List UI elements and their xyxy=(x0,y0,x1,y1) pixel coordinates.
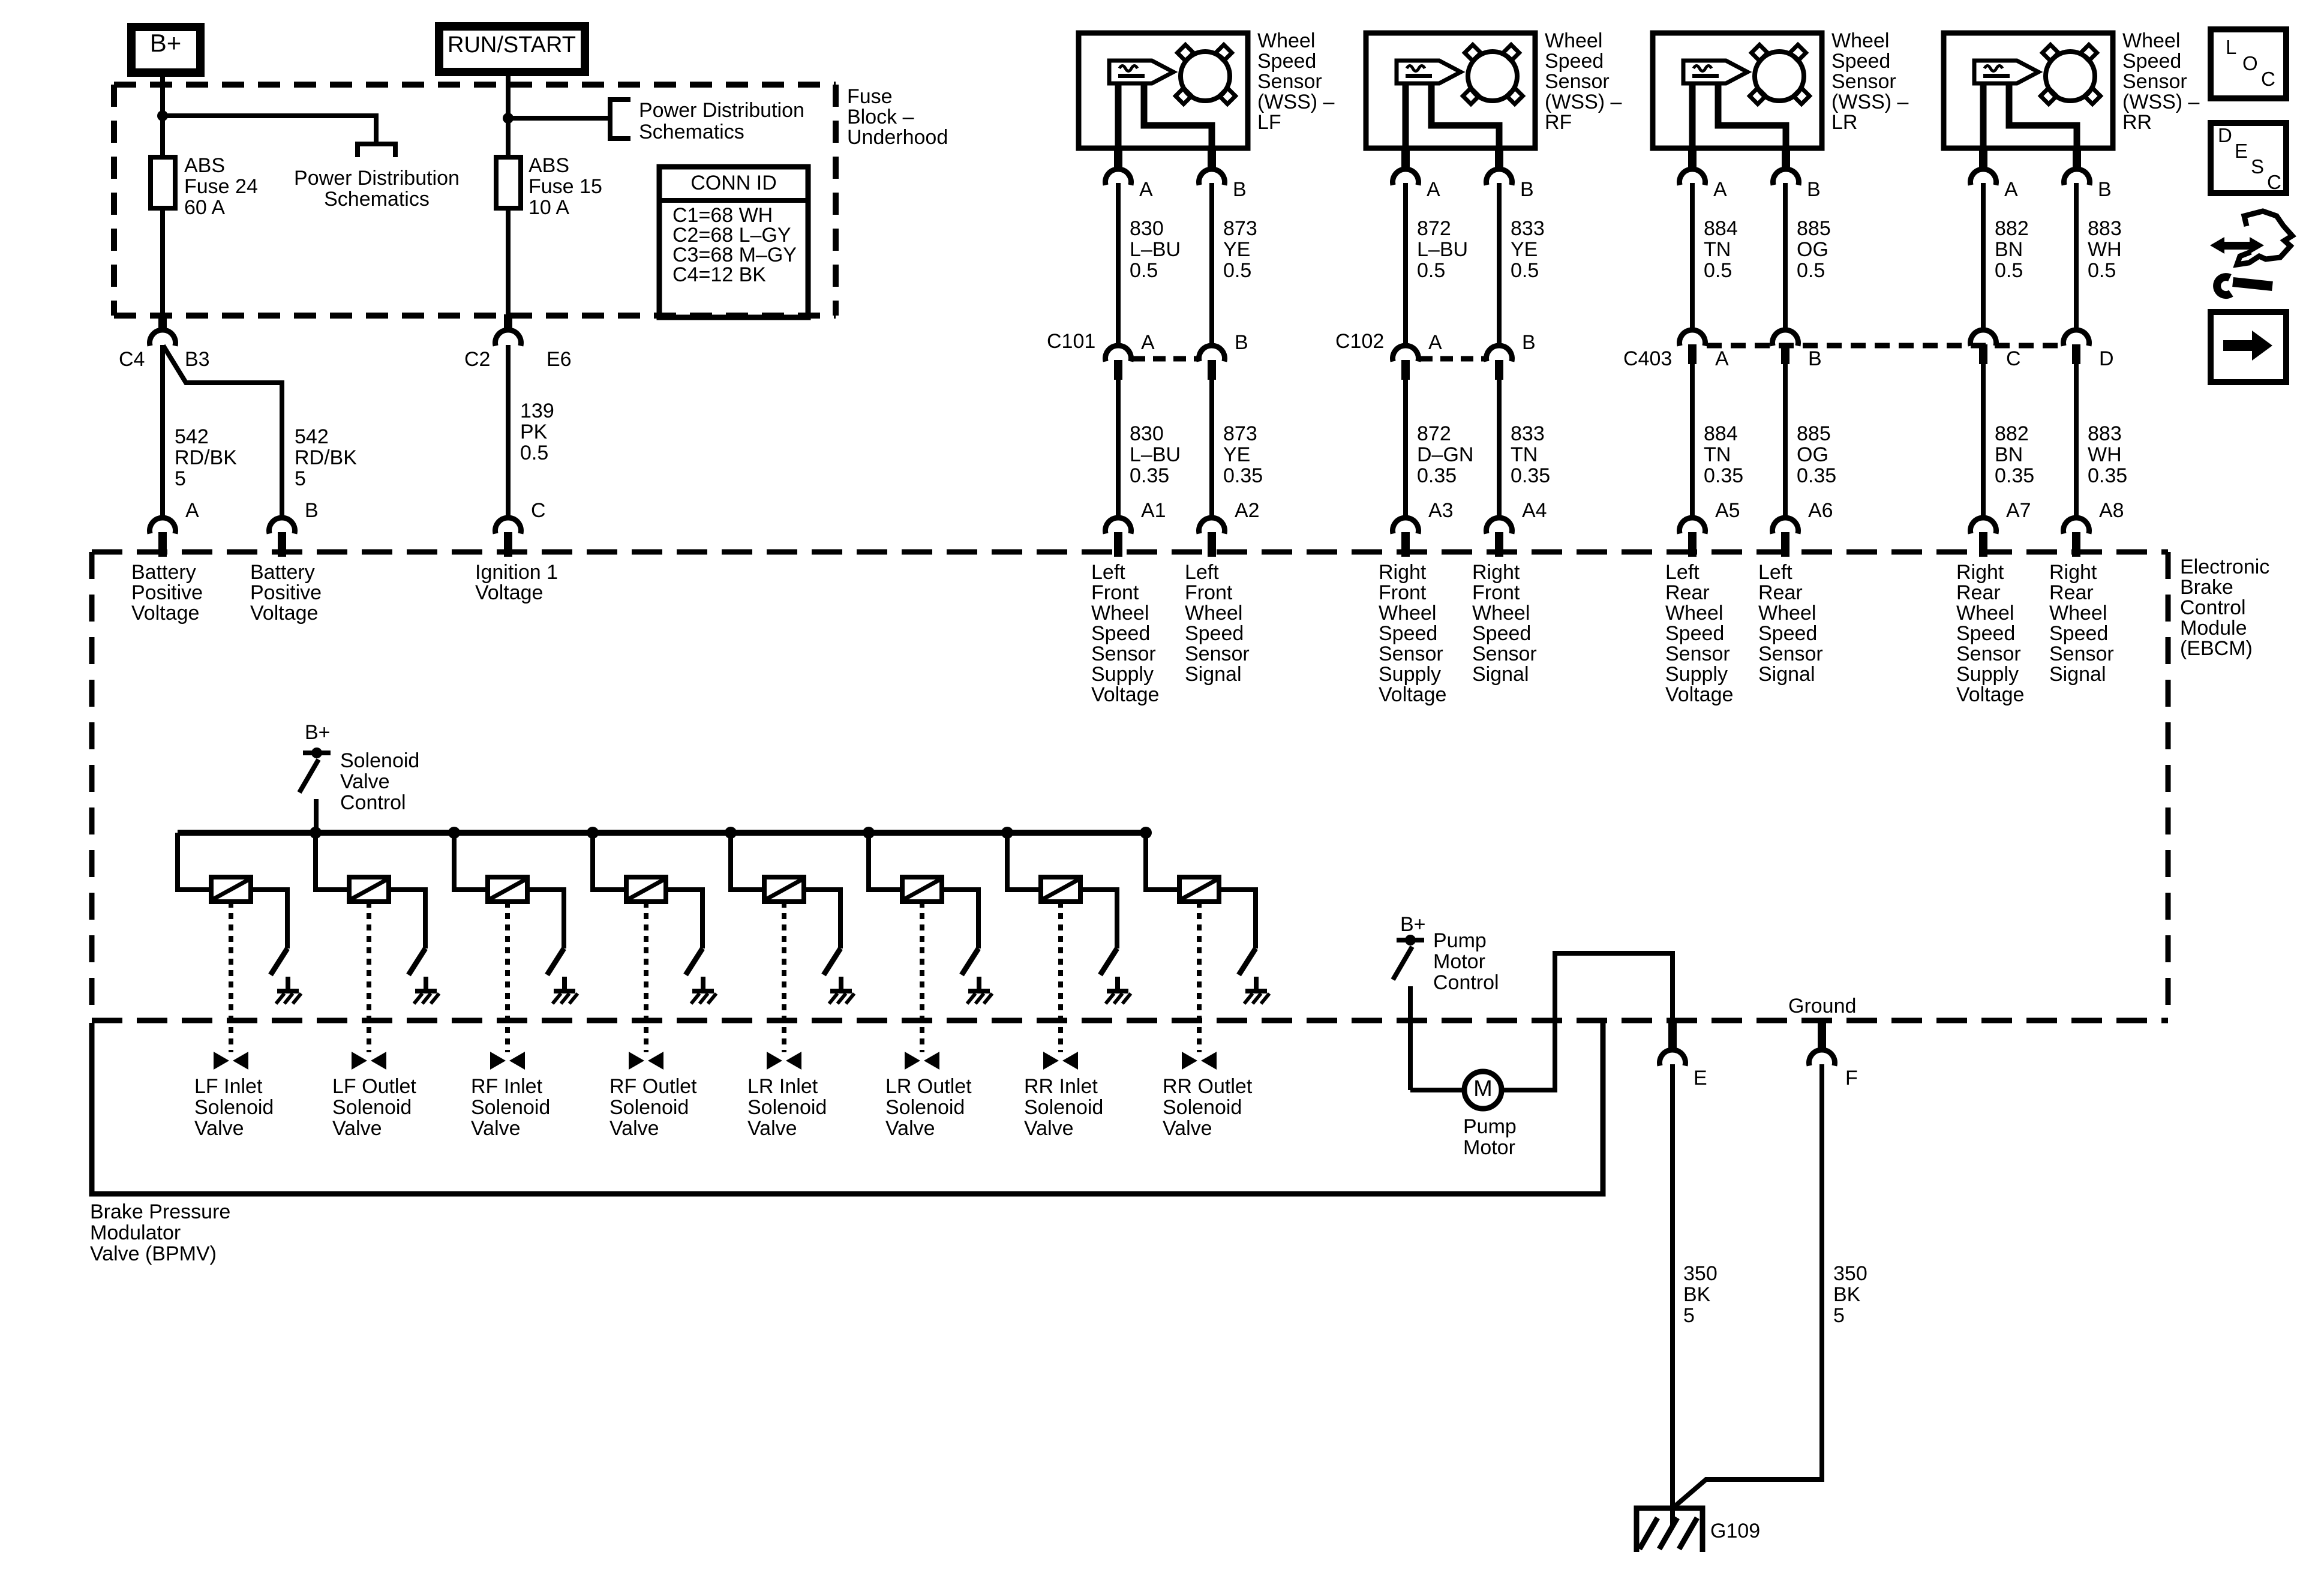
svg-text:C2: C2 xyxy=(464,348,490,371)
WSS LF sensor tag icon xyxy=(1109,61,1173,83)
junction dot B+ branch xyxy=(157,110,168,121)
solenoid driver coil LF Inlet xyxy=(211,877,251,902)
WSS LR internal wire B xyxy=(1718,83,1786,149)
svg-text:A5: A5 xyxy=(1715,499,1740,522)
svg-text:Sensor: Sensor xyxy=(2049,643,2114,665)
pointer bracket to Power Distribution Schematics (right) xyxy=(610,100,630,139)
brake pressure modulator valve (BPMV) box outline xyxy=(92,1023,1603,1194)
connector C403 pin B xyxy=(1773,330,1798,346)
svg-text:Brake Pressure: Brake Pressure xyxy=(90,1200,230,1223)
wire bus feed to RR Outlet driver coil xyxy=(1146,833,1179,890)
svg-text:Battery: Battery xyxy=(250,561,315,584)
wire bus feed to LF Outlet driver coil xyxy=(316,833,349,890)
junction dot bus feed LR Inlet xyxy=(725,827,737,839)
svg-text:Sensor: Sensor xyxy=(1831,70,1896,93)
svg-text:833: 833 xyxy=(1511,217,1545,240)
svg-text:LR Outlet: LR Outlet xyxy=(885,1075,972,1098)
svg-text:Signal: Signal xyxy=(2049,663,2106,686)
dashed actuation link RR Inlet xyxy=(1058,902,1063,1052)
svg-text:BN: BN xyxy=(1995,238,2023,261)
wire 885 OG 0.35 to EBCM pin A6 xyxy=(1783,363,1788,520)
svg-text:Sensor: Sensor xyxy=(1379,643,1443,665)
electronic brake control module (EBCM) dashed box xyxy=(92,550,2168,555)
svg-text:A4: A4 xyxy=(1522,499,1547,522)
svg-text:Wheel: Wheel xyxy=(1257,29,1315,52)
svg-text:D: D xyxy=(2099,347,2114,370)
wire 883 WH 0.35 to EBCM pin A8 xyxy=(2074,363,2079,520)
svg-text:C102: C102 xyxy=(1335,330,1384,353)
svg-text:0.5: 0.5 xyxy=(2088,259,2116,282)
svg-text:RF: RF xyxy=(1545,111,1572,134)
svg-text:LF Inlet: LF Inlet xyxy=(194,1075,263,1098)
svg-text:TN: TN xyxy=(1511,443,1538,466)
svg-text:883: 883 xyxy=(2088,422,2122,445)
EBCM pin A2 connector xyxy=(1199,518,1225,534)
wire bus feed to RF Outlet driver coil xyxy=(593,833,626,890)
svg-text:0.5: 0.5 xyxy=(520,442,548,464)
svg-text:Valve: Valve xyxy=(194,1117,244,1140)
wire 833 TN 0.35 to EBCM pin A4 xyxy=(1497,379,1502,520)
svg-text:(WSS) –: (WSS) – xyxy=(1831,91,1909,113)
svg-text:G109: G109 xyxy=(1710,1520,1760,1542)
solenoid driver coil RR Outlet xyxy=(1179,877,1219,902)
svg-text:Rear: Rear xyxy=(1665,581,1710,604)
power symbol B+ pump motor supply xyxy=(1397,938,1424,942)
svg-text:A: A xyxy=(2004,178,2018,201)
svg-text:873: 873 xyxy=(1223,217,1257,240)
ground (driver RR Outlet) xyxy=(1254,977,1259,992)
WSS LR pin A connector xyxy=(1688,148,1697,171)
svg-text:Speed: Speed xyxy=(1185,622,1244,645)
wire 884 TN 0.35 to EBCM pin A5 xyxy=(1690,363,1695,520)
wire LF Inlet coil to driver switch xyxy=(251,890,287,948)
junction dot bus feed RR Inlet xyxy=(1001,827,1013,839)
power symbol B+ box xyxy=(131,27,200,73)
EBCM pin A5 connector xyxy=(1680,518,1706,534)
svg-text:872: 872 xyxy=(1417,217,1451,240)
svg-text:B+: B+ xyxy=(305,721,331,744)
WSS LR tone wheel icon xyxy=(1752,45,1768,61)
connector C101 mating dashes xyxy=(1133,356,1197,362)
svg-text:Solenoid: Solenoid xyxy=(471,1096,550,1119)
svg-text:F: F xyxy=(1845,1067,1858,1089)
svg-text:Speed: Speed xyxy=(1545,50,1604,73)
solenoid valve symbol RF Outlet xyxy=(629,1052,644,1070)
wheel speed sensor (WSS) LF box xyxy=(1079,33,1248,148)
junction dot bus feed LF Outlet xyxy=(310,827,322,839)
junction dot RUN/START branch xyxy=(503,113,514,124)
wheel speed sensor (WSS) RF box xyxy=(1366,33,1535,148)
svg-text:0.5: 0.5 xyxy=(1704,259,1732,282)
svg-text:Left: Left xyxy=(1185,561,1219,584)
svg-text:0.35: 0.35 xyxy=(1130,464,1169,487)
EBCM pin B connector xyxy=(269,518,295,534)
svg-text:A: A xyxy=(1141,331,1155,354)
svg-text:5: 5 xyxy=(175,467,186,490)
svg-text:873: 873 xyxy=(1223,422,1257,445)
ground G109 symbol xyxy=(1637,1508,1703,1552)
svg-text:Speed: Speed xyxy=(1956,622,2015,645)
svg-text:C403: C403 xyxy=(1623,347,1672,370)
svg-text:Voltage: Voltage xyxy=(475,581,543,604)
svg-text:E: E xyxy=(2235,140,2248,162)
svg-text:C: C xyxy=(2006,347,2021,370)
svg-text:Front: Front xyxy=(1379,581,1427,604)
svg-text:Front: Front xyxy=(1185,581,1233,604)
svg-text:Signal: Signal xyxy=(1472,663,1529,686)
svg-text:Sensor: Sensor xyxy=(1956,643,2021,665)
svg-text:Wheel: Wheel xyxy=(1545,29,1602,52)
svg-text:Speed: Speed xyxy=(1831,50,1890,73)
svg-text:Control: Control xyxy=(1433,971,1499,994)
dashed actuation link LF Outlet xyxy=(367,902,371,1052)
svg-text:A3: A3 xyxy=(1428,499,1454,522)
WSS RR internal wire B xyxy=(2009,83,2077,149)
EBCM pin C connector xyxy=(496,518,521,534)
dashed actuation link RR Outlet xyxy=(1197,902,1202,1052)
svg-text:Wheel: Wheel xyxy=(1758,602,1816,625)
svg-text:Front: Front xyxy=(1091,581,1139,604)
ground (driver LF Inlet) xyxy=(286,977,290,992)
svg-text:882: 882 xyxy=(1995,217,2029,240)
svg-text:60 A: 60 A xyxy=(184,196,225,219)
wire RR Outlet coil to driver switch xyxy=(1219,890,1256,948)
svg-text:Speed: Speed xyxy=(1665,622,1724,645)
svg-text:Valve: Valve xyxy=(609,1117,659,1140)
svg-text:A: A xyxy=(185,499,199,522)
wire LR Inlet coil to driver switch xyxy=(804,890,840,948)
svg-text:Sensor: Sensor xyxy=(1185,643,1250,665)
WSS LR sensor tag icon xyxy=(1683,61,1747,83)
wire 885 OG 0.5 xyxy=(1783,183,1788,332)
connector C102 pin B xyxy=(1487,346,1512,362)
svg-text:Fuse 15: Fuse 15 xyxy=(529,175,602,198)
solenoid driver coil LR Inlet xyxy=(764,877,804,902)
svg-text:C: C xyxy=(2267,171,2281,193)
svg-text:5: 5 xyxy=(1833,1304,1845,1327)
svg-text:A8: A8 xyxy=(2099,499,2124,522)
svg-text:10 A: 10 A xyxy=(529,196,569,219)
svg-text:(WSS) –: (WSS) – xyxy=(1545,91,1622,113)
connector C102 pin A xyxy=(1393,346,1419,362)
svg-text:Motor: Motor xyxy=(1433,950,1485,973)
wire RR Inlet coil to driver switch xyxy=(1080,890,1117,948)
svg-text:Voltage: Voltage xyxy=(1379,683,1446,706)
svg-text:Speed: Speed xyxy=(1472,622,1531,645)
svg-text:RF Outlet: RF Outlet xyxy=(609,1075,697,1098)
svg-text:0.5: 0.5 xyxy=(1130,259,1158,282)
WSS LF internal wire A xyxy=(1115,83,1122,149)
svg-text:Valve: Valve xyxy=(1163,1117,1212,1140)
svg-text:RR Outlet: RR Outlet xyxy=(1163,1075,1253,1098)
svg-text:OG: OG xyxy=(1797,443,1828,466)
svg-text:M: M xyxy=(1473,1076,1493,1101)
svg-text:O: O xyxy=(2242,52,2258,74)
svg-text:Motor: Motor xyxy=(1463,1136,1515,1159)
svg-text:RR: RR xyxy=(2122,111,2152,134)
connector C2 (fuse block output) xyxy=(504,314,512,332)
connector C101 pin A xyxy=(1106,346,1131,362)
fuse block - underhood dashed box xyxy=(114,82,836,88)
svg-text:350: 350 xyxy=(1683,1262,1718,1285)
svg-text:0.5: 0.5 xyxy=(1797,259,1825,282)
svg-text:Voltage: Voltage xyxy=(250,602,318,625)
svg-text:0.5: 0.5 xyxy=(1223,259,1251,282)
EBCM pin E connector xyxy=(1668,1019,1677,1052)
WSS RF pin B connector xyxy=(1495,148,1503,171)
svg-text:Module: Module xyxy=(2180,617,2247,640)
dashed actuation link RF Inlet xyxy=(505,902,510,1052)
svg-text:B: B xyxy=(305,499,319,522)
svg-text:A1: A1 xyxy=(1141,499,1166,522)
solenoid valve symbol LR Inlet xyxy=(767,1052,782,1070)
svg-text:(EBCM): (EBCM) xyxy=(2180,637,2253,660)
solenoid valve symbol RR Outlet xyxy=(1182,1052,1197,1070)
svg-text:Wheel: Wheel xyxy=(2122,29,2180,52)
ground (driver RF Inlet) xyxy=(562,977,567,992)
svg-text:C4=12 BK: C4=12 BK xyxy=(672,263,766,286)
wire 830 L–BU 0.5 xyxy=(1116,183,1121,347)
svg-text:Sensor: Sensor xyxy=(2122,70,2187,93)
svg-text:E6: E6 xyxy=(547,348,572,371)
WSS RR tone wheel icon xyxy=(2043,45,2059,61)
svg-text:Valve: Valve xyxy=(1024,1117,1074,1140)
EBCM pin F connector xyxy=(1818,1019,1826,1052)
WSS LF pin A connector xyxy=(1114,148,1122,171)
svg-text:Wheel: Wheel xyxy=(1831,29,1889,52)
wire RF Outlet coil to driver switch xyxy=(666,890,702,948)
svg-text:0.35: 0.35 xyxy=(1223,464,1263,487)
svg-text:A: A xyxy=(1713,178,1727,201)
wire 873 YE 0.5 xyxy=(1209,183,1214,347)
svg-text:Supply: Supply xyxy=(1091,663,1154,686)
solenoid supply bus xyxy=(178,830,1145,836)
svg-text:C4: C4 xyxy=(119,348,145,371)
wire RUN/START to fuse 15 xyxy=(506,72,511,157)
svg-text:0.5: 0.5 xyxy=(1511,259,1539,282)
svg-text:YE: YE xyxy=(1223,238,1250,261)
svg-text:C101: C101 xyxy=(1047,330,1095,353)
svg-text:Supply: Supply xyxy=(1956,663,2019,686)
svg-text:0.5: 0.5 xyxy=(1417,259,1445,282)
svg-text:BK: BK xyxy=(1683,1283,1711,1306)
solenoid valve symbol LF Inlet xyxy=(214,1052,229,1070)
svg-text:Valve (BPMV): Valve (BPMV) xyxy=(90,1242,217,1265)
svg-text:Positive: Positive xyxy=(131,581,203,604)
svg-text:885: 885 xyxy=(1797,422,1831,445)
svg-text:B: B xyxy=(1520,178,1534,201)
wire 882 BN 0.35 to EBCM pin A7 xyxy=(1981,363,1986,520)
svg-text:TN: TN xyxy=(1704,238,1731,261)
svg-text:Power Distribution: Power Distribution xyxy=(294,167,460,190)
svg-text:Solenoid: Solenoid xyxy=(1024,1096,1103,1119)
svg-text:A: A xyxy=(1428,331,1442,354)
svg-text:885: 885 xyxy=(1797,217,1831,240)
svg-text:YE: YE xyxy=(1223,443,1250,466)
svg-text:E: E xyxy=(1694,1067,1707,1089)
connector C101 pin B xyxy=(1199,346,1225,362)
svg-text:A: A xyxy=(1715,347,1729,370)
svg-text:Fuse: Fuse xyxy=(847,85,893,108)
svg-text:0.5: 0.5 xyxy=(1995,259,2023,282)
wire 872 D–GN 0.35 to EBCM pin A3 xyxy=(1403,379,1408,520)
driver switch LF Outlet xyxy=(409,948,425,975)
svg-text:0.35: 0.35 xyxy=(1995,464,2034,487)
svg-text:L–BU: L–BU xyxy=(1417,238,1468,261)
svg-text:Speed: Speed xyxy=(2049,622,2108,645)
svg-text:Power Distribution: Power Distribution xyxy=(639,99,804,122)
svg-text:LF: LF xyxy=(1257,111,1281,134)
solenoid driver coil RR Inlet xyxy=(1041,877,1080,902)
connector C403 pin D xyxy=(2064,330,2089,346)
EBCM pin A7 connector xyxy=(1970,518,1996,534)
wire 883 WH 0.5 xyxy=(2074,183,2079,332)
WSS LR internal wire A xyxy=(1689,83,1696,149)
svg-text:Pump: Pump xyxy=(1463,1115,1517,1138)
wheel speed sensor (WSS) RR box xyxy=(1944,33,2113,148)
wire 139 PK to pin C xyxy=(506,345,511,520)
svg-text:L–BU: L–BU xyxy=(1130,238,1181,261)
svg-text:Sensor: Sensor xyxy=(1758,643,1823,665)
svg-text:Schematics: Schematics xyxy=(324,188,430,211)
svg-text:872: 872 xyxy=(1417,422,1451,445)
driver switch RR Outlet xyxy=(1239,948,1256,975)
svg-text:Sensor: Sensor xyxy=(1665,643,1730,665)
svg-text:Speed: Speed xyxy=(1379,622,1437,645)
svg-text:Sensor: Sensor xyxy=(1091,643,1156,665)
wire LR Outlet coil to driver switch xyxy=(942,890,978,948)
svg-text:LR: LR xyxy=(1831,111,1857,134)
svg-text:350: 350 xyxy=(1833,1262,1867,1285)
svg-text:Pump: Pump xyxy=(1433,929,1487,952)
svg-text:YE: YE xyxy=(1511,238,1538,261)
svg-text:Speed: Speed xyxy=(1257,50,1316,73)
WSS RF sensor tag icon xyxy=(1397,61,1461,83)
svg-text:Speed: Speed xyxy=(1091,622,1150,645)
wire 542 RD/BK to pin A xyxy=(160,345,165,520)
svg-text:Electronic: Electronic xyxy=(2180,556,2269,578)
dashed actuation link LR Inlet xyxy=(782,902,786,1052)
junction dot bus feed RR Outlet xyxy=(1140,827,1152,839)
svg-text:882: 882 xyxy=(1995,422,2029,445)
WSS RF internal wire A xyxy=(1403,83,1409,149)
wire branch to power distribution pointer xyxy=(163,116,376,144)
svg-text:B: B xyxy=(1807,178,1821,201)
svg-text:L–BU: L–BU xyxy=(1130,443,1181,466)
wire branch to power distribution pointer (right) xyxy=(508,116,610,121)
svg-text:B: B xyxy=(1233,178,1247,201)
driver switch LR Outlet xyxy=(962,948,978,975)
svg-text:Valve: Valve xyxy=(747,1117,797,1140)
svg-text:542: 542 xyxy=(295,425,329,448)
ground (driver LR Inlet) xyxy=(839,977,843,992)
solenoid driver coil RF Outlet xyxy=(626,877,666,902)
svg-text:Wheel: Wheel xyxy=(1665,602,1723,625)
svg-text:ABS: ABS xyxy=(529,154,569,177)
svg-text:Valve: Valve xyxy=(332,1117,382,1140)
svg-text:0.35: 0.35 xyxy=(2088,464,2127,487)
svg-text:CONN ID: CONN ID xyxy=(690,172,777,194)
svg-text:830: 830 xyxy=(1130,217,1164,240)
solenoid driver coil RF Inlet xyxy=(488,877,527,902)
svg-text:Signal: Signal xyxy=(1758,663,1815,686)
EBCM pin A6 connector xyxy=(1773,518,1798,534)
wire 873 YE 0.35 to EBCM pin A2 xyxy=(1209,379,1214,520)
svg-text:Ground: Ground xyxy=(1788,995,1856,1017)
EBCM pin A8 connector xyxy=(2064,518,2089,534)
svg-text:RD/BK: RD/BK xyxy=(295,446,357,469)
svg-text:Solenoid: Solenoid xyxy=(194,1096,274,1119)
svg-text:Brake: Brake xyxy=(2180,576,2233,599)
svg-text:Sensor: Sensor xyxy=(1472,643,1537,665)
svg-text:Right: Right xyxy=(1956,561,2004,584)
junction dot bus feed RF Outlet xyxy=(587,827,599,839)
svg-text:Ignition 1: Ignition 1 xyxy=(475,561,558,584)
svg-text:WH: WH xyxy=(2088,443,2122,466)
svg-text:Schematics: Schematics xyxy=(639,121,744,143)
svg-text:Block –: Block – xyxy=(847,106,914,128)
EBCM pin A3 connector xyxy=(1393,518,1419,534)
svg-text:5: 5 xyxy=(295,467,306,490)
junction dot bus feed RF Inlet xyxy=(448,827,460,839)
fuse ABS Fuse 15 10 A xyxy=(496,157,521,208)
svg-text:139: 139 xyxy=(520,400,554,422)
svg-text:Solenoid: Solenoid xyxy=(1163,1096,1242,1119)
svg-text:Voltage: Voltage xyxy=(1091,683,1159,706)
svg-text:Solenoid: Solenoid xyxy=(340,749,419,772)
svg-text:Sensor: Sensor xyxy=(1545,70,1610,93)
svg-text:Wheel: Wheel xyxy=(2049,602,2107,625)
svg-text:Wheel: Wheel xyxy=(1185,602,1242,625)
svg-text:884: 884 xyxy=(1704,217,1738,240)
wire bus feed to RR Inlet driver coil xyxy=(1007,833,1041,890)
svg-text:Speed: Speed xyxy=(2122,50,2181,73)
svg-text:0.35: 0.35 xyxy=(1797,464,1836,487)
connector C403 pin A xyxy=(1680,330,1706,346)
driver switch LF Inlet xyxy=(271,948,287,975)
svg-text:Control: Control xyxy=(2180,596,2246,619)
svg-text:BN: BN xyxy=(1995,443,2023,466)
ground (driver RR Inlet) xyxy=(1115,977,1120,992)
WSS LR pin B connector xyxy=(1782,148,1790,171)
pump motor M circle xyxy=(1464,1071,1502,1109)
svg-text:0.35: 0.35 xyxy=(1704,464,1743,487)
driver switch RR Inlet xyxy=(1100,948,1117,975)
svg-text:Signal: Signal xyxy=(1185,663,1242,686)
svg-text:A2: A2 xyxy=(1235,499,1260,522)
svg-text:Front: Front xyxy=(1472,581,1520,604)
svg-text:TN: TN xyxy=(1704,443,1731,466)
svg-text:Left: Left xyxy=(1091,561,1125,584)
wire B+ to solenoid bus xyxy=(314,799,319,833)
svg-text:Solenoid: Solenoid xyxy=(332,1096,412,1119)
icon jump harness with wrench xyxy=(2210,237,2224,254)
wire bus feed to RF Inlet driver coil xyxy=(454,833,488,890)
svg-text:883: 883 xyxy=(2088,217,2122,240)
WSS LF pin B connector xyxy=(1208,148,1216,171)
wire 350 BK (F) to G109 xyxy=(1673,1064,1822,1508)
power symbol RUN/START box xyxy=(439,26,585,72)
svg-text:RR Inlet: RR Inlet xyxy=(1024,1075,1098,1098)
EBCM pin A connector xyxy=(150,518,176,534)
svg-text:D: D xyxy=(2218,124,2232,146)
svg-text:Fuse 24: Fuse 24 xyxy=(184,175,258,198)
wire LF Outlet coil to driver switch xyxy=(389,890,425,948)
svg-text:RUN/START: RUN/START xyxy=(448,32,576,58)
svg-text:Rear: Rear xyxy=(2049,581,2094,604)
svg-text:542: 542 xyxy=(175,425,209,448)
svg-text:A7: A7 xyxy=(2006,499,2031,522)
